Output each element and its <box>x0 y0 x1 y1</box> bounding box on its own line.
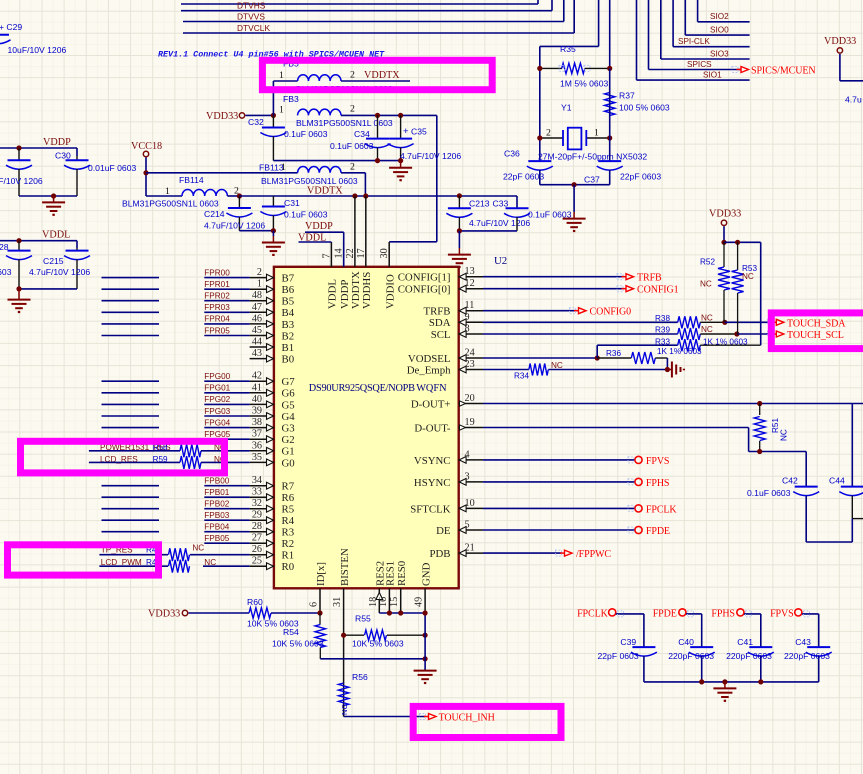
junction <box>16 286 21 291</box>
resistor R59 <box>89 455 250 469</box>
net label FPG04 <box>204 418 230 427</box>
svg-text:R52: R52 <box>700 258 715 267</box>
port FPHS <box>711 609 744 620</box>
svg-text:TOUCH_SCL: TOUCH_SCL <box>787 330 844 341</box>
net label FPG05 <box>204 430 230 439</box>
pin 24 VODSEL <box>408 348 483 365</box>
port CONFIG0 <box>574 307 631 318</box>
capacitor C32 <box>248 115 328 160</box>
svg-text:C35: C35 <box>411 127 427 137</box>
junction <box>457 228 462 233</box>
svg-text:1: 1 <box>594 128 599 139</box>
svg-text:NC: NC <box>742 272 754 281</box>
wire /FPPWC <box>483 552 562 554</box>
svg-text:SDA: SDA <box>429 317 451 329</box>
wire FPG05 <box>204 438 249 440</box>
pin 36 G1 <box>250 440 295 457</box>
junction <box>237 193 242 198</box>
resistor R34 <box>514 361 667 381</box>
capacitor C42 <box>747 476 819 542</box>
svg-text:B0: B0 <box>282 354 295 366</box>
ground <box>389 161 412 181</box>
svg-text:44: 44 <box>252 337 262 348</box>
net label POWER1531_RES <box>100 443 171 452</box>
highlight box FB5 <box>262 60 492 89</box>
resistor R37 <box>605 90 670 115</box>
svg-text:G1: G1 <box>282 446 295 458</box>
svg-text:48: 48 <box>252 290 262 301</box>
svg-text:FPR02: FPR02 <box>204 292 230 301</box>
pin 17 VDDHS <box>356 196 373 309</box>
label NC <box>192 544 204 553</box>
junction <box>757 449 762 454</box>
wire XI <box>540 0 599 46</box>
svg-text:C214: C214 <box>204 209 225 219</box>
pin 39 G4 <box>250 406 296 423</box>
capacitor C44 <box>829 476 863 519</box>
port FPCLK <box>635 504 678 515</box>
svg-text:100 5% 0603: 100 5% 0603 <box>619 103 670 113</box>
svg-text:R2: R2 <box>282 538 295 550</box>
ferrite bead FB5 <box>273 59 410 94</box>
pin 46 B3 <box>250 313 295 330</box>
net label LCD_RES <box>100 455 138 464</box>
junction <box>735 240 740 245</box>
pin 25 R0 <box>250 556 295 573</box>
wire to TOUCH_INH <box>344 716 425 718</box>
junction <box>363 193 368 198</box>
svg-text:B4: B4 <box>282 307 295 319</box>
pin 28 R3 <box>250 521 295 538</box>
wire FB3 down to VDDIO <box>389 115 437 241</box>
svg-text:G7: G7 <box>282 376 296 388</box>
port FPCLK <box>577 609 616 620</box>
svg-text:FPG01: FPG01 <box>204 384 230 393</box>
svg-text:45: 45 <box>252 325 262 336</box>
resistor R53 <box>732 242 758 334</box>
pin 32 R5 <box>250 498 295 515</box>
pin 26 R1 <box>250 544 295 561</box>
wire VCC18 to FB113 <box>146 172 298 174</box>
svg-text:WQFN: WQFN <box>416 383 447 394</box>
net label VDDP <box>43 137 71 148</box>
capacitor C214 <box>204 196 265 231</box>
wire bus stub <box>102 415 160 417</box>
svg-text:220pF 0603: 220pF 0603 <box>668 651 714 661</box>
resistor R55 <box>344 613 426 648</box>
pin 43 B0 <box>250 348 295 365</box>
svg-text:30: 30 <box>379 248 390 258</box>
junction <box>721 240 726 245</box>
wire FPR03 <box>204 311 249 313</box>
svg-text:4.7uF/10V 1206: 4.7uF/10V 1206 <box>29 267 90 277</box>
svg-text:9: 9 <box>465 312 470 323</box>
resistor R56 <box>338 672 368 717</box>
svg-text:R35: R35 <box>560 44 576 54</box>
junction <box>699 679 704 684</box>
svg-text:39: 39 <box>252 406 262 417</box>
svg-text:28: 28 <box>252 521 262 532</box>
net label FPB01 <box>204 488 229 497</box>
svg-text:VDDHS: VDDHS <box>361 272 373 309</box>
label NC <box>701 314 713 323</box>
capacitor C39 <box>598 637 657 682</box>
wire VDD33 up to FB5 <box>272 81 274 115</box>
pin 3 HSYNC <box>414 471 483 488</box>
svg-text:C42: C42 <box>782 476 798 486</box>
junction <box>271 113 276 118</box>
capacitor C215 <box>29 248 90 289</box>
wire R36 down <box>666 358 668 370</box>
resistor R45 <box>99 546 249 562</box>
svg-text:27: 27 <box>252 533 262 544</box>
svg-text:FPB04: FPB04 <box>204 523 229 532</box>
svg-text:23: 23 <box>465 359 475 370</box>
svg-text:TRFB: TRFB <box>637 273 662 284</box>
junction <box>537 66 542 71</box>
svg-text:4.7uF/10V 1206: 4.7uF/10V 1206 <box>0 176 43 186</box>
svg-text:C41: C41 <box>737 637 753 647</box>
wire C32 gnd rail <box>273 160 400 162</box>
pin 22 VDDTX <box>345 196 362 309</box>
svg-text:10K 5% 0603: 10K 5% 0603 <box>352 639 404 649</box>
svg-text:C32: C32 <box>248 117 264 127</box>
capacitor C40 <box>668 637 715 682</box>
svg-text:C213: C213 <box>469 199 490 209</box>
net label VDDP <box>305 221 333 232</box>
wire SIO2 <box>698 0 750 22</box>
wire FPVS <box>802 614 819 647</box>
svg-text:BLM31PG500SN1L 0603: BLM31PG500SN1L 0603 <box>296 118 393 128</box>
wire FB113 out <box>364 173 366 196</box>
svg-text:8: 8 <box>465 324 470 335</box>
svg-text:BLM31PG500SN1L 0603: BLM31PG500SN1L 0603 <box>261 176 358 186</box>
svg-text:C30: C30 <box>55 151 71 161</box>
net label FPB03 <box>204 511 229 520</box>
svg-text:5: 5 <box>465 520 470 531</box>
svg-text:21: 21 <box>465 543 475 554</box>
resistor R35 <box>540 44 610 89</box>
svg-text:29: 29 <box>252 510 262 521</box>
svg-text:ID[x]: ID[x] <box>315 562 327 586</box>
junction <box>457 193 462 198</box>
pin 33 R6 <box>250 487 295 504</box>
svg-text:G2: G2 <box>282 434 295 446</box>
junction <box>665 367 670 372</box>
svg-text:10K 5% 0603: 10K 5% 0603 <box>272 639 324 649</box>
wire D-OUT+ <box>483 403 863 405</box>
junction <box>398 158 403 163</box>
wire FPCLK <box>616 614 644 647</box>
svg-text:FPCLK: FPCLK <box>577 609 609 620</box>
net label DTVVS <box>237 11 265 21</box>
junction <box>271 228 276 233</box>
svg-text:CONFIG1: CONFIG1 <box>637 285 679 296</box>
wire C44 side <box>852 519 863 542</box>
svg-text:0.1uF 0603: 0.1uF 0603 <box>330 141 374 151</box>
wire SPI-CLK <box>673 0 750 47</box>
svg-text:DTVHS: DTVHS <box>237 1 266 11</box>
label NC <box>204 558 216 567</box>
ferrite bead FB113 <box>259 162 365 186</box>
power port VDD33 <box>206 111 273 122</box>
wire FPR05 <box>204 335 249 337</box>
wire bus stub <box>102 380 160 382</box>
svg-text:VDDP: VDDP <box>339 280 351 309</box>
junction <box>423 633 428 638</box>
junction <box>398 113 403 118</box>
junction <box>423 610 428 615</box>
port SPICS/MCUEN <box>737 66 816 77</box>
wire R54 rail <box>320 658 425 660</box>
svg-text:26: 26 <box>252 544 262 555</box>
capacitor C36 <box>503 148 553 184</box>
port FPVS <box>770 609 802 620</box>
svg-text:C228: C228 <box>0 242 9 252</box>
svg-text:FPVS: FPVS <box>646 456 670 467</box>
ground <box>42 196 65 215</box>
svg-text:G5: G5 <box>282 399 295 411</box>
svg-text:FPR05: FPR05 <box>204 326 230 335</box>
svg-text:3: 3 <box>465 471 470 482</box>
svg-text:22pF 0603: 22pF 0603 <box>503 172 544 182</box>
svg-text:31: 31 <box>332 597 343 607</box>
power port VDD33 <box>148 609 249 620</box>
label NC <box>214 443 226 452</box>
net label TP_RES <box>101 546 133 555</box>
svg-text:2: 2 <box>350 70 355 81</box>
ferrite bead FB3 <box>279 94 437 128</box>
svg-text:C33: C33 <box>493 199 509 209</box>
svg-text:Y1: Y1 <box>561 102 572 112</box>
junction <box>375 113 380 118</box>
wire FPG04 <box>204 427 249 429</box>
highlight box TOUCH_SDA <box>771 313 863 349</box>
svg-text:FPR04: FPR04 <box>204 315 230 324</box>
wire VODSEL <box>483 357 597 359</box>
svg-text:C39: C39 <box>620 637 636 647</box>
wire FPG03 <box>204 415 249 417</box>
pin 48 B5 <box>250 290 295 307</box>
wire VDDTX rail <box>239 196 517 207</box>
wire DTVVS <box>183 0 564 22</box>
svg-text:SPICS: SPICS <box>687 60 712 69</box>
pin 41 G6 <box>250 382 296 399</box>
IC U2 body <box>274 267 459 589</box>
svg-text:TOUCH_SDA: TOUCH_SDA <box>787 318 846 329</box>
svg-text:32: 32 <box>252 498 262 509</box>
port CONFIG1 <box>622 285 679 296</box>
svg-text:22pF 0603: 22pF 0603 <box>620 172 661 182</box>
svg-text:16: 16 <box>378 597 389 607</box>
svg-text:VDD33: VDD33 <box>148 609 180 620</box>
net label FPB00 <box>204 477 229 486</box>
svg-text:2: 2 <box>257 267 262 278</box>
wire FPB00 <box>204 485 249 487</box>
wire Y1 left <box>539 46 541 161</box>
svg-text:1: 1 <box>279 104 284 115</box>
net label VDDTX <box>364 70 400 81</box>
wire FPB04 <box>204 531 249 533</box>
pin 2 B7 <box>250 267 295 284</box>
wire C213-C33 rail <box>459 230 517 232</box>
net label FPB04 <box>204 523 229 532</box>
svg-text:0.1uF 0603: 0.1uF 0603 <box>0 267 12 277</box>
wire SPICS <box>649 0 742 70</box>
net label SIO3 <box>710 49 729 58</box>
svg-text:2: 2 <box>350 103 355 114</box>
pin 38 G3 <box>250 417 295 434</box>
junction <box>398 610 403 615</box>
svg-text:FPG05: FPG05 <box>204 430 230 439</box>
wire bus stub <box>102 335 160 337</box>
svg-text:SIO0: SIO0 <box>710 25 729 34</box>
svg-text:R56: R56 <box>352 672 368 682</box>
svg-text:FPB03: FPB03 <box>204 511 229 520</box>
value 27M <box>538 151 647 161</box>
wire cap gnd rail <box>644 681 819 683</box>
wire FPDE <box>686 614 702 647</box>
pin 9 SDA <box>429 312 483 329</box>
ground <box>8 289 31 312</box>
wire R33 drop <box>596 345 598 358</box>
wire FPB01 <box>204 496 249 498</box>
net label SIO1 <box>703 71 722 80</box>
svg-text:2: 2 <box>350 162 355 173</box>
pin 20 D-OUT+ <box>411 393 483 410</box>
svg-text:R0: R0 <box>282 561 295 573</box>
port TOUCH_SDA <box>772 318 846 329</box>
wire FPB02 <box>204 508 249 510</box>
svg-text:FPG03: FPG03 <box>204 407 230 416</box>
capacitor C33 <box>493 199 572 231</box>
wire DTVCLK <box>183 0 574 33</box>
crystal Y1 <box>540 102 610 149</box>
svg-text:43: 43 <box>252 348 262 359</box>
net label FPG01 <box>204 384 230 393</box>
wire bus stub <box>102 519 160 521</box>
capacitor C29 <box>0 22 66 55</box>
svg-text:27M-20pF+/-50ppm NX5032: 27M-20pF+/-50ppm NX5032 <box>538 151 647 161</box>
svg-text:TRFB: TRFB <box>423 306 450 318</box>
svg-text:DS90UR925QSQE/NOPB: DS90UR925QSQE/NOPB <box>309 383 415 394</box>
net label VDDL <box>42 230 70 241</box>
pin 23 De_Emph <box>407 359 483 376</box>
svg-text:B3: B3 <box>282 319 295 331</box>
junction <box>51 193 56 198</box>
net label FPB02 <box>204 500 229 509</box>
junction <box>734 331 739 336</box>
pin 30 VDDIO <box>379 242 396 309</box>
junction <box>352 193 357 198</box>
svg-text:B1: B1 <box>282 342 295 354</box>
svg-text:FPDE: FPDE <box>653 609 677 620</box>
wire XO <box>609 0 611 68</box>
capacitor C34 <box>330 115 391 160</box>
svg-text:NC: NC <box>700 280 712 289</box>
pin 14 VDDP <box>334 242 351 309</box>
wire C42-C44 rail <box>806 541 852 543</box>
ground <box>262 231 285 255</box>
junction <box>16 238 21 243</box>
junction <box>607 66 612 71</box>
svg-text:6: 6 <box>309 602 320 607</box>
svg-text:FPHS: FPHS <box>711 609 735 620</box>
wire CONFIG0 <box>483 310 577 312</box>
junction <box>595 355 600 360</box>
svg-text:33: 33 <box>252 487 262 498</box>
pin 8 SCL <box>431 324 483 341</box>
svg-text:DTVCLK: DTVCLK <box>237 23 270 33</box>
svg-text:HSYNC: HSYNC <box>414 477 451 489</box>
svg-text:NC: NC <box>551 361 563 370</box>
svg-text:FPB05: FPB05 <box>204 534 229 543</box>
wire SCL <box>483 333 678 335</box>
pin 40 G5 <box>250 394 295 411</box>
svg-text:42: 42 <box>252 371 262 382</box>
junction <box>341 633 346 638</box>
net label SPICS <box>687 60 712 69</box>
svg-text:15: 15 <box>389 597 400 607</box>
label NC <box>701 325 713 334</box>
svg-text:C40: C40 <box>678 637 694 647</box>
pin 4 VSYNC <box>414 449 483 466</box>
pin 10 SFTCLK <box>410 498 483 515</box>
wire FPG01 <box>204 392 249 394</box>
svg-text:VDDL: VDDL <box>42 230 70 241</box>
net label DTVHS <box>237 1 266 11</box>
svg-text:C44: C44 <box>829 476 845 486</box>
svg-text:GND: GND <box>420 562 432 586</box>
net label SIO2 <box>710 12 729 21</box>
svg-text:R5: R5 <box>282 504 295 516</box>
pin 31 BISTEN <box>332 548 351 716</box>
wire SIO1 <box>637 0 750 80</box>
svg-text:1K 1% 0603: 1K 1% 0603 <box>657 347 702 356</box>
svg-text:VDDP: VDDP <box>305 221 333 232</box>
svg-text:47: 47 <box>252 302 262 313</box>
svg-text:11: 11 <box>465 300 475 311</box>
power port VCC18 <box>131 141 162 196</box>
wire bus stub <box>102 508 160 510</box>
wire FPG02 <box>204 403 249 405</box>
port TOUCH_INH <box>424 712 495 723</box>
wire C214-C31 gnd rail <box>239 230 273 232</box>
svg-text:1: 1 <box>281 162 286 173</box>
wire bus stub <box>102 496 160 498</box>
capacitor C35 <box>388 115 462 161</box>
wire D-OUT- <box>483 428 806 487</box>
net label FPR00 <box>204 268 230 277</box>
wire bus stub <box>102 531 160 533</box>
pin 19 D-OUT- <box>414 417 483 434</box>
wire FPB03 <box>204 519 249 521</box>
svg-text:NC: NC <box>701 325 713 334</box>
label NC <box>214 455 226 464</box>
svg-text:VDD33: VDD33 <box>709 209 741 220</box>
svg-text:C34: C34 <box>354 129 370 139</box>
pin 16 RES1 <box>378 561 397 613</box>
svg-text:C215: C215 <box>43 256 64 266</box>
svg-text:FPG04: FPG04 <box>204 418 230 427</box>
svg-text:VDDTX: VDDTX <box>307 186 343 197</box>
svg-text:FPR03: FPR03 <box>204 303 230 312</box>
wire bus stub <box>102 485 160 487</box>
pin 13 CONFIG[1] <box>398 266 483 283</box>
net label FPG00 <box>204 372 230 381</box>
ground <box>448 231 471 267</box>
node marks <box>420 65 810 719</box>
